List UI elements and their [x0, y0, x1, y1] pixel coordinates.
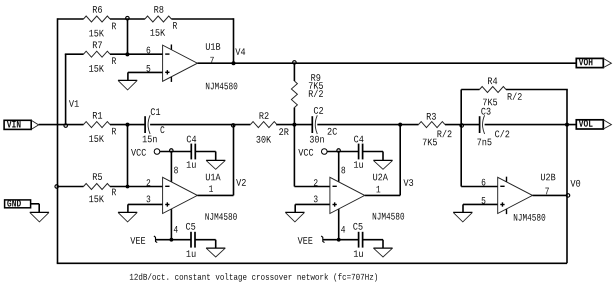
pin number U1A pin 4: [174, 226, 178, 233]
capacitor C4 (U2A supply): [359, 144, 363, 160]
node R5 right junction: [126, 185, 130, 189]
pin number U2A pin 8: [341, 167, 345, 174]
value label R7 15K: [89, 65, 104, 72]
node R4/C3 crossing: [460, 124, 464, 128]
pin number U2A pin 4: [341, 226, 345, 233]
value label R5 R: [112, 189, 116, 196]
wire R7 lead left: [65, 53, 84, 55]
wire R1 to node: [110, 124, 128, 126]
node R9 top junction: [293, 61, 297, 65]
output port VOL: [576, 120, 611, 129]
wire R7 to node: [110, 53, 128, 55]
op-amp U2A: [330, 177, 365, 213]
wire U2A pin 3 stub: [295, 204, 330, 212]
wire U1B output to VOH: [197, 62, 576, 64]
value label C3 7n5: [477, 139, 491, 146]
wire R2 to node: [276, 124, 294, 126]
label C4 (U1A): [187, 136, 196, 143]
label C3: [481, 108, 490, 115]
value label C2 30n: [310, 136, 324, 143]
output port VOH: [576, 58, 611, 67]
op-amp U1A: [163, 177, 198, 213]
label R4: [488, 78, 497, 85]
value label R4 7K5: [483, 99, 497, 106]
ground (U1A pin 3): [118, 212, 137, 222]
VEE symbol (U2A): [298, 236, 325, 244]
value label R4 R/2: [508, 93, 522, 100]
wire U2A pin 4: [338, 209, 340, 240]
value label R5 15K: [89, 196, 104, 203]
wire V3 column up: [399, 125, 401, 196]
wire U1A pin 4: [170, 209, 172, 240]
wire node to U1B pin 6: [128, 53, 163, 55]
label R1: [93, 112, 102, 119]
pin number U1A pin 1: [209, 185, 213, 192]
capacitor C4 (U1A supply): [191, 144, 195, 160]
value label R6 15K: [89, 30, 104, 37]
wire VIN to R1: [39, 124, 84, 126]
wire U2B pin 5 stub: [463, 204, 498, 212]
node V3 junction: [398, 123, 402, 127]
ground (C5 U2A): [373, 248, 392, 257]
wire C2 to node V3: [317, 124, 418, 126]
label U1B: [206, 43, 220, 50]
wire U2A pin 8: [338, 152, 340, 182]
pin number U2A pin 3: [314, 196, 318, 203]
value label C3 C/2: [495, 130, 509, 137]
wire V0 feedback to R6 (left rail): [57, 18, 59, 263]
net label V3: [403, 179, 413, 186]
node V4: [232, 61, 236, 65]
label C5 (U1A): [186, 223, 195, 230]
wire pin 5 down to ground: [127, 72, 129, 80]
label R9: [311, 74, 320, 81]
label C4 (U2A): [354, 136, 363, 143]
value label C4 1u (U2A): [354, 161, 363, 168]
node VCC junction (U2A): [337, 149, 341, 153]
value label C4 1u (U1A): [187, 161, 196, 168]
node V1: [64, 124, 68, 128]
wire C4 to ground corner (U1A): [195, 152, 215, 161]
capacitor C1: [145, 115, 150, 134]
resistor R8: [145, 16, 172, 22]
label C5 (U2A): [353, 223, 362, 230]
label U1A: [206, 174, 221, 181]
node R7 junction: [125, 52, 129, 56]
value label C5 1u (U2A): [354, 250, 363, 257]
wire U1B pin 5 stub: [128, 71, 163, 73]
ground (C5 U1A): [206, 248, 225, 257]
label R5: [93, 173, 102, 180]
net label V2: [236, 179, 246, 186]
pin number U2B pin 7: [545, 188, 549, 195]
wire VOL right rail: [566, 90, 568, 264]
ground (U2B pin 5): [453, 212, 472, 222]
value label R8 R: [173, 22, 177, 29]
port GND: [5, 200, 40, 213]
value label R1 15K: [89, 135, 104, 142]
ground (U2A pin 3): [285, 212, 304, 222]
node VEE junction (U1A): [170, 238, 174, 242]
wire U1A pin 3 stub: [128, 204, 163, 212]
label U2A: [373, 174, 388, 181]
value label R2 30K: [256, 136, 271, 143]
input port VIN: [4, 120, 39, 129]
value label R1 R: [112, 128, 116, 135]
resistor R4: [480, 87, 507, 93]
value label R9 7K5: [309, 82, 323, 89]
resistor R2: [250, 122, 277, 128]
capacitor C5 (U1A supply): [191, 232, 195, 248]
op-amp U2B: [498, 177, 533, 214]
value label C1 C: [160, 126, 164, 133]
net label V4: [235, 48, 245, 55]
value label U1B NJM4580: [206, 83, 237, 90]
label R7: [93, 42, 102, 49]
node R6/R8 junction: [126, 16, 129, 20]
wire node to R8: [128, 18, 145, 20]
value label R7 R: [112, 57, 116, 64]
node VOL junction: [565, 123, 569, 127]
wire to U2B pin 6: [461, 186, 498, 188]
wire V1 column: [65, 54, 67, 124]
wire R9 top lead: [293, 63, 295, 81]
wire node down to U2A pin 2: [294, 125, 330, 187]
ground (GND port): [30, 212, 49, 222]
wire rail to R5: [58, 186, 84, 188]
label R3: [427, 113, 436, 120]
wire U1A output V2: [197, 194, 233, 196]
VCC symbol (U1A): [131, 149, 160, 156]
label U2B: [541, 174, 555, 181]
wire R5 to node: [110, 186, 128, 188]
wire corner down to V4: [233, 18, 235, 63]
resistor R1: [84, 122, 111, 128]
wire C3 to VOL node: [485, 124, 577, 126]
pin number U1B pin 7: [210, 57, 214, 64]
ground (C4 U1A): [206, 160, 225, 169]
node C1/V2 junction: [231, 124, 235, 128]
pin number U2B pin 6: [482, 179, 486, 186]
wire cross node to C3: [461, 124, 479, 126]
label C2: [314, 107, 323, 114]
resistor R9: [291, 81, 297, 108]
value label R2 2R: [279, 128, 288, 135]
resistor R6: [84, 16, 111, 22]
value label U2A NJM4580: [373, 213, 404, 220]
wire C5 to ground corner (U2A): [363, 240, 383, 248]
value label R6 R: [112, 23, 116, 30]
wire C5 to ground corner (U1A): [195, 240, 216, 248]
wire top row R6 lead left: [58, 18, 84, 20]
value label R9 R/2: [309, 90, 323, 97]
wire U2B output V0: [533, 194, 568, 196]
pin number U2A pin 2: [314, 179, 318, 186]
wire R6 to node: [110, 18, 128, 20]
pin number U1B pin 6: [147, 47, 151, 54]
node R9 bottom junction: [292, 123, 296, 127]
capacitor C5 (U2A supply): [359, 232, 363, 248]
value label R3 R/2: [437, 130, 451, 137]
pin number U1B pin 5: [146, 65, 150, 72]
wire VCC to C4 (U2A): [327, 151, 358, 153]
VCC symbol (U2A): [298, 149, 327, 156]
wire C4 to ground corner (U2A): [363, 152, 383, 161]
pin number U2B pin 5: [482, 197, 486, 204]
wire U2A output V3: [365, 194, 401, 196]
net label V1: [69, 100, 79, 107]
resistor R5: [84, 184, 111, 190]
node V0: [566, 194, 570, 198]
wire node column R1 to R5: [127, 125, 129, 187]
ground (U1B pin 5): [118, 80, 137, 90]
wire VEE to C5 (U1A): [155, 239, 191, 241]
capacitor C2: [312, 115, 317, 134]
wire node column R6/R7: [127, 19, 129, 54]
caption: [130, 273, 377, 281]
wire R4 left column: [460, 90, 462, 187]
label R2: [260, 112, 269, 119]
op-amp U1B: [163, 44, 198, 81]
resistor R7: [84, 51, 111, 57]
value label R8 15K: [150, 29, 165, 36]
wire C1 to node V2 branch: [150, 124, 250, 126]
pin number U1A pin 8: [174, 167, 178, 174]
node VCC junction (U1A): [170, 149, 174, 153]
node R1 junction: [126, 123, 130, 127]
ground (C4 U2A): [373, 160, 392, 169]
pin number U2A pin 1: [376, 186, 380, 193]
value label C1 15n: [143, 136, 157, 143]
wire R3 to cross node: [445, 124, 461, 126]
value label C5 1u (U1A): [187, 250, 196, 257]
wire V2 column up: [233, 125, 235, 196]
node R5 left junction: [55, 185, 59, 189]
net label V0: [570, 180, 580, 187]
pin number U1A pin 3: [146, 196, 150, 203]
wire R4 row left: [461, 89, 479, 91]
wire R8 to corner: [171, 18, 233, 20]
wire node to C1: [128, 124, 146, 126]
label R6: [93, 6, 102, 13]
pin number U1A pin 2: [147, 179, 151, 186]
wire VCC to C4 (U1A): [160, 151, 191, 153]
value label R3 7K5: [423, 139, 437, 146]
wire U1A pin 8: [170, 152, 172, 182]
resistor R3: [419, 122, 446, 128]
wire bottom feedback net: [57, 262, 567, 264]
wire node to U1A pin 2: [128, 186, 163, 188]
value label U2B NJM4580: [514, 214, 545, 221]
wire R4 row right: [506, 89, 568, 91]
label C1: [151, 108, 160, 115]
capacitor C3: [480, 115, 485, 134]
node VEE junction (U2A): [337, 238, 341, 242]
wire node to C2: [294, 124, 312, 126]
wire VEE to C5 (U2A): [323, 239, 359, 241]
wire R9 bottom lead: [293, 108, 295, 125]
value label C2 2C: [328, 128, 337, 135]
label R8: [154, 6, 163, 13]
value label U1A NJM4580: [205, 213, 236, 220]
VEE symbol (U1A): [130, 236, 157, 244]
